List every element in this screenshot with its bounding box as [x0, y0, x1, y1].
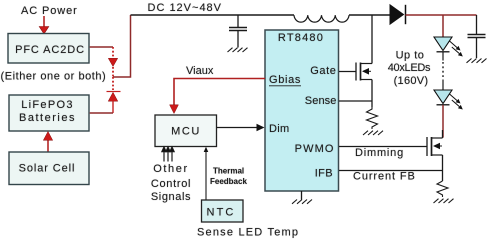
svg-text:Gbias: Gbias — [269, 74, 301, 86]
wire: dotted LED string — [442, 62, 444, 79]
IC U1: RT8480 — [265, 30, 339, 191]
svg-text:Signals: Signals — [151, 191, 191, 203]
ground (C1) — [228, 48, 248, 52]
arrows: other control signals into MCU — [162, 147, 175, 162]
svg-text:Control: Control — [151, 178, 191, 190]
wire: OR node to DC bus riser — [113, 15, 131, 77]
arrow: thermal feedback NTC to MCU — [205, 149, 207, 200]
resistor R2 — [437, 181, 448, 197]
wire: Gate to Q1 — [339, 71, 356, 73]
transistor Q2 — [427, 137, 443, 156]
wire: Q2 source down to IFB node — [442, 155, 444, 181]
wire: DC bus to diode — [349, 14, 390, 16]
wire: battery output to OR node — [90, 112, 113, 114]
capacitor C2 — [468, 15, 486, 58]
wire: LED string top (dark red) — [442, 15, 444, 37]
svg-text:Thermal: Thermal — [213, 167, 244, 176]
svg-text:NTC: NTC — [207, 207, 236, 219]
block: NTC — [202, 200, 244, 222]
block: LiFePO3 Batteries — [9, 95, 89, 131]
ground (U1) — [301, 191, 303, 200]
arrow: Solar Cell into Batteries — [43, 132, 52, 153]
wire: DC bus left — [131, 14, 295, 16]
svg-text:40xLEDs: 40xLEDs — [388, 62, 431, 74]
svg-text:Dim: Dim — [269, 123, 289, 135]
wire: Viaux from Gbias to MCU — [174, 79, 265, 106]
ground (R2) — [434, 199, 454, 203]
wire: boost output rail (dark red) — [406, 14, 477, 16]
svg-text:Viaux: Viaux — [186, 65, 214, 77]
svg-text:PWMO: PWMO — [295, 143, 335, 155]
svg-text:Gate: Gate — [310, 65, 336, 77]
svg-text:Current FB: Current FB — [353, 171, 416, 183]
block: PFC AC2DC — [8, 34, 89, 64]
diode D1 — [390, 5, 404, 24]
svg-text:(160V): (160V) — [394, 75, 429, 87]
wire: dotted OR segment with down arrow — [108, 47, 117, 77]
emission arrows — [450, 41, 458, 48]
wire: IFB / Current FB line — [339, 170, 443, 172]
resistor R1 — [367, 107, 378, 129]
svg-text:RT8480: RT8480 — [278, 32, 324, 44]
wire: Q1 drain to bus — [371, 15, 373, 64]
svg-text:IFB: IFB — [315, 167, 333, 179]
wire: Sense pin — [339, 100, 372, 102]
inductor L1 — [294, 15, 349, 22]
svg-text:Up to: Up to — [396, 49, 425, 61]
wire: PWMO / Dimming line — [339, 146, 427, 148]
arrow: AC Power into PFC — [39, 16, 49, 34]
svg-text:(Either one or both): (Either one or both) — [1, 71, 107, 83]
svg-text:MCU: MCU — [171, 126, 201, 138]
ground (R1) — [363, 131, 383, 135]
svg-text:Feedback: Feedback — [210, 177, 247, 186]
svg-text:Dimming: Dimming — [355, 147, 404, 159]
wire: dotted segment battery with up arrow — [107, 77, 121, 113]
transistor Q1 — [356, 63, 372, 81]
svg-text:DC 12V~48V: DC 12V~48V — [148, 2, 223, 14]
arrow: MCU to Dim pin — [217, 127, 259, 129]
svg-text:Batteries: Batteries — [19, 112, 76, 124]
ground (C2) — [467, 59, 487, 63]
svg-text:Sense LED Temp: Sense LED Temp — [197, 226, 299, 238]
block: MCU — [155, 115, 217, 147]
wire: LED string bottom to Q2 (dark red) — [442, 105, 444, 138]
svg-text:Solar Cell: Solar Cell — [19, 163, 76, 175]
emission arrows — [450, 94, 458, 101]
wire: Q2 drain up — [442, 130, 444, 138]
wire: Q1 source to sense/resistor — [371, 80, 373, 108]
LED D2 — [434, 37, 463, 61]
svg-text:Other: Other — [153, 163, 189, 175]
wire: PFC output to OR node — [90, 46, 113, 48]
svg-text:PFC AC2DC: PFC AC2DC — [15, 44, 85, 56]
svg-text:Sense: Sense — [305, 95, 337, 107]
svg-text:AC Power: AC Power — [21, 5, 78, 17]
svg-text:LiFePO3: LiFePO3 — [21, 99, 74, 111]
block: Solar Cell — [9, 152, 89, 185]
LED D3 — [434, 90, 463, 110]
capacitor C1 — [229, 15, 247, 48]
